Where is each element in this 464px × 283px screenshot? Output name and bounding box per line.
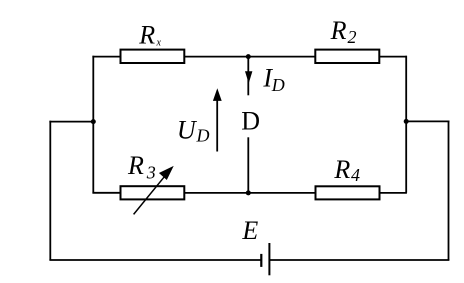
svg-text:x: x [156,37,162,48]
wire bottom-right corner: R4 to right vertical [379,192,407,194]
resistor R4 [316,186,380,199]
wire left vertical: top wire to bottom bridge wire [92,56,94,193]
label UD [177,115,210,145]
svg-text:D: D [241,107,260,136]
wire battery left: outer left to negative plate [49,259,261,261]
resistor R3 (variable) [121,186,185,199]
label Rx [138,20,161,49]
node A (top centre junction) [246,54,251,59]
wire outer left vertical: down to battery loop [49,121,51,260]
svg-text:R: R [127,151,144,180]
resistor Rx [121,50,185,63]
svg-text:D: D [271,75,285,95]
node C (left bridge terminal) [91,119,96,124]
svg-text:R: R [138,20,155,49]
arrowhead ID (current direction down) [245,71,252,83]
svg-text:D: D [196,125,210,145]
arrow UD (voltage, pointing up) [213,88,222,151]
arrow through R3 (variable marker) [134,167,173,214]
label R3 [127,151,156,183]
wire battery right: positive plate to outer right [269,259,449,261]
svg-text:R: R [330,16,347,45]
wire detector lower: D down to node B [247,137,249,193]
label R4 [333,155,360,185]
wire top-left: node C riser corner to Rx [92,56,121,58]
resistor R2 [315,50,379,63]
label ID [262,64,284,95]
node B (bottom centre junction) [246,190,251,195]
svg-text:E: E [241,216,258,245]
wire detector upper: node A down to arrow [247,57,249,96]
wire bottom-middle: R3 to node B [185,192,249,194]
svg-text:2: 2 [348,27,357,47]
wire top-right: node A to R2 [248,56,316,58]
wire bottom-right: node B to R4 [248,192,316,194]
label R2 [330,16,357,47]
node Dnet (right bridge terminal) [404,119,409,124]
battery E negative plate (short) [260,254,262,267]
svg-text:4: 4 [351,165,360,185]
svg-text:U: U [177,115,198,144]
svg-text:R: R [333,155,350,184]
wire bottom-left: left vertical to R3 [92,192,121,194]
wire left stub: node C to outer left [49,121,93,123]
wire top-middle: Rx to node A [184,56,248,58]
wire top-right corner: R2 to right vertical [379,56,407,58]
wire right stub: node Dnet to outer right [406,120,449,122]
wire right vertical: top wire to bottom bridge wire [405,56,407,193]
wire outer right vertical: down to battery loop [448,121,450,261]
battery E positive plate (long) [268,243,270,275]
svg-text:3: 3 [146,163,156,183]
